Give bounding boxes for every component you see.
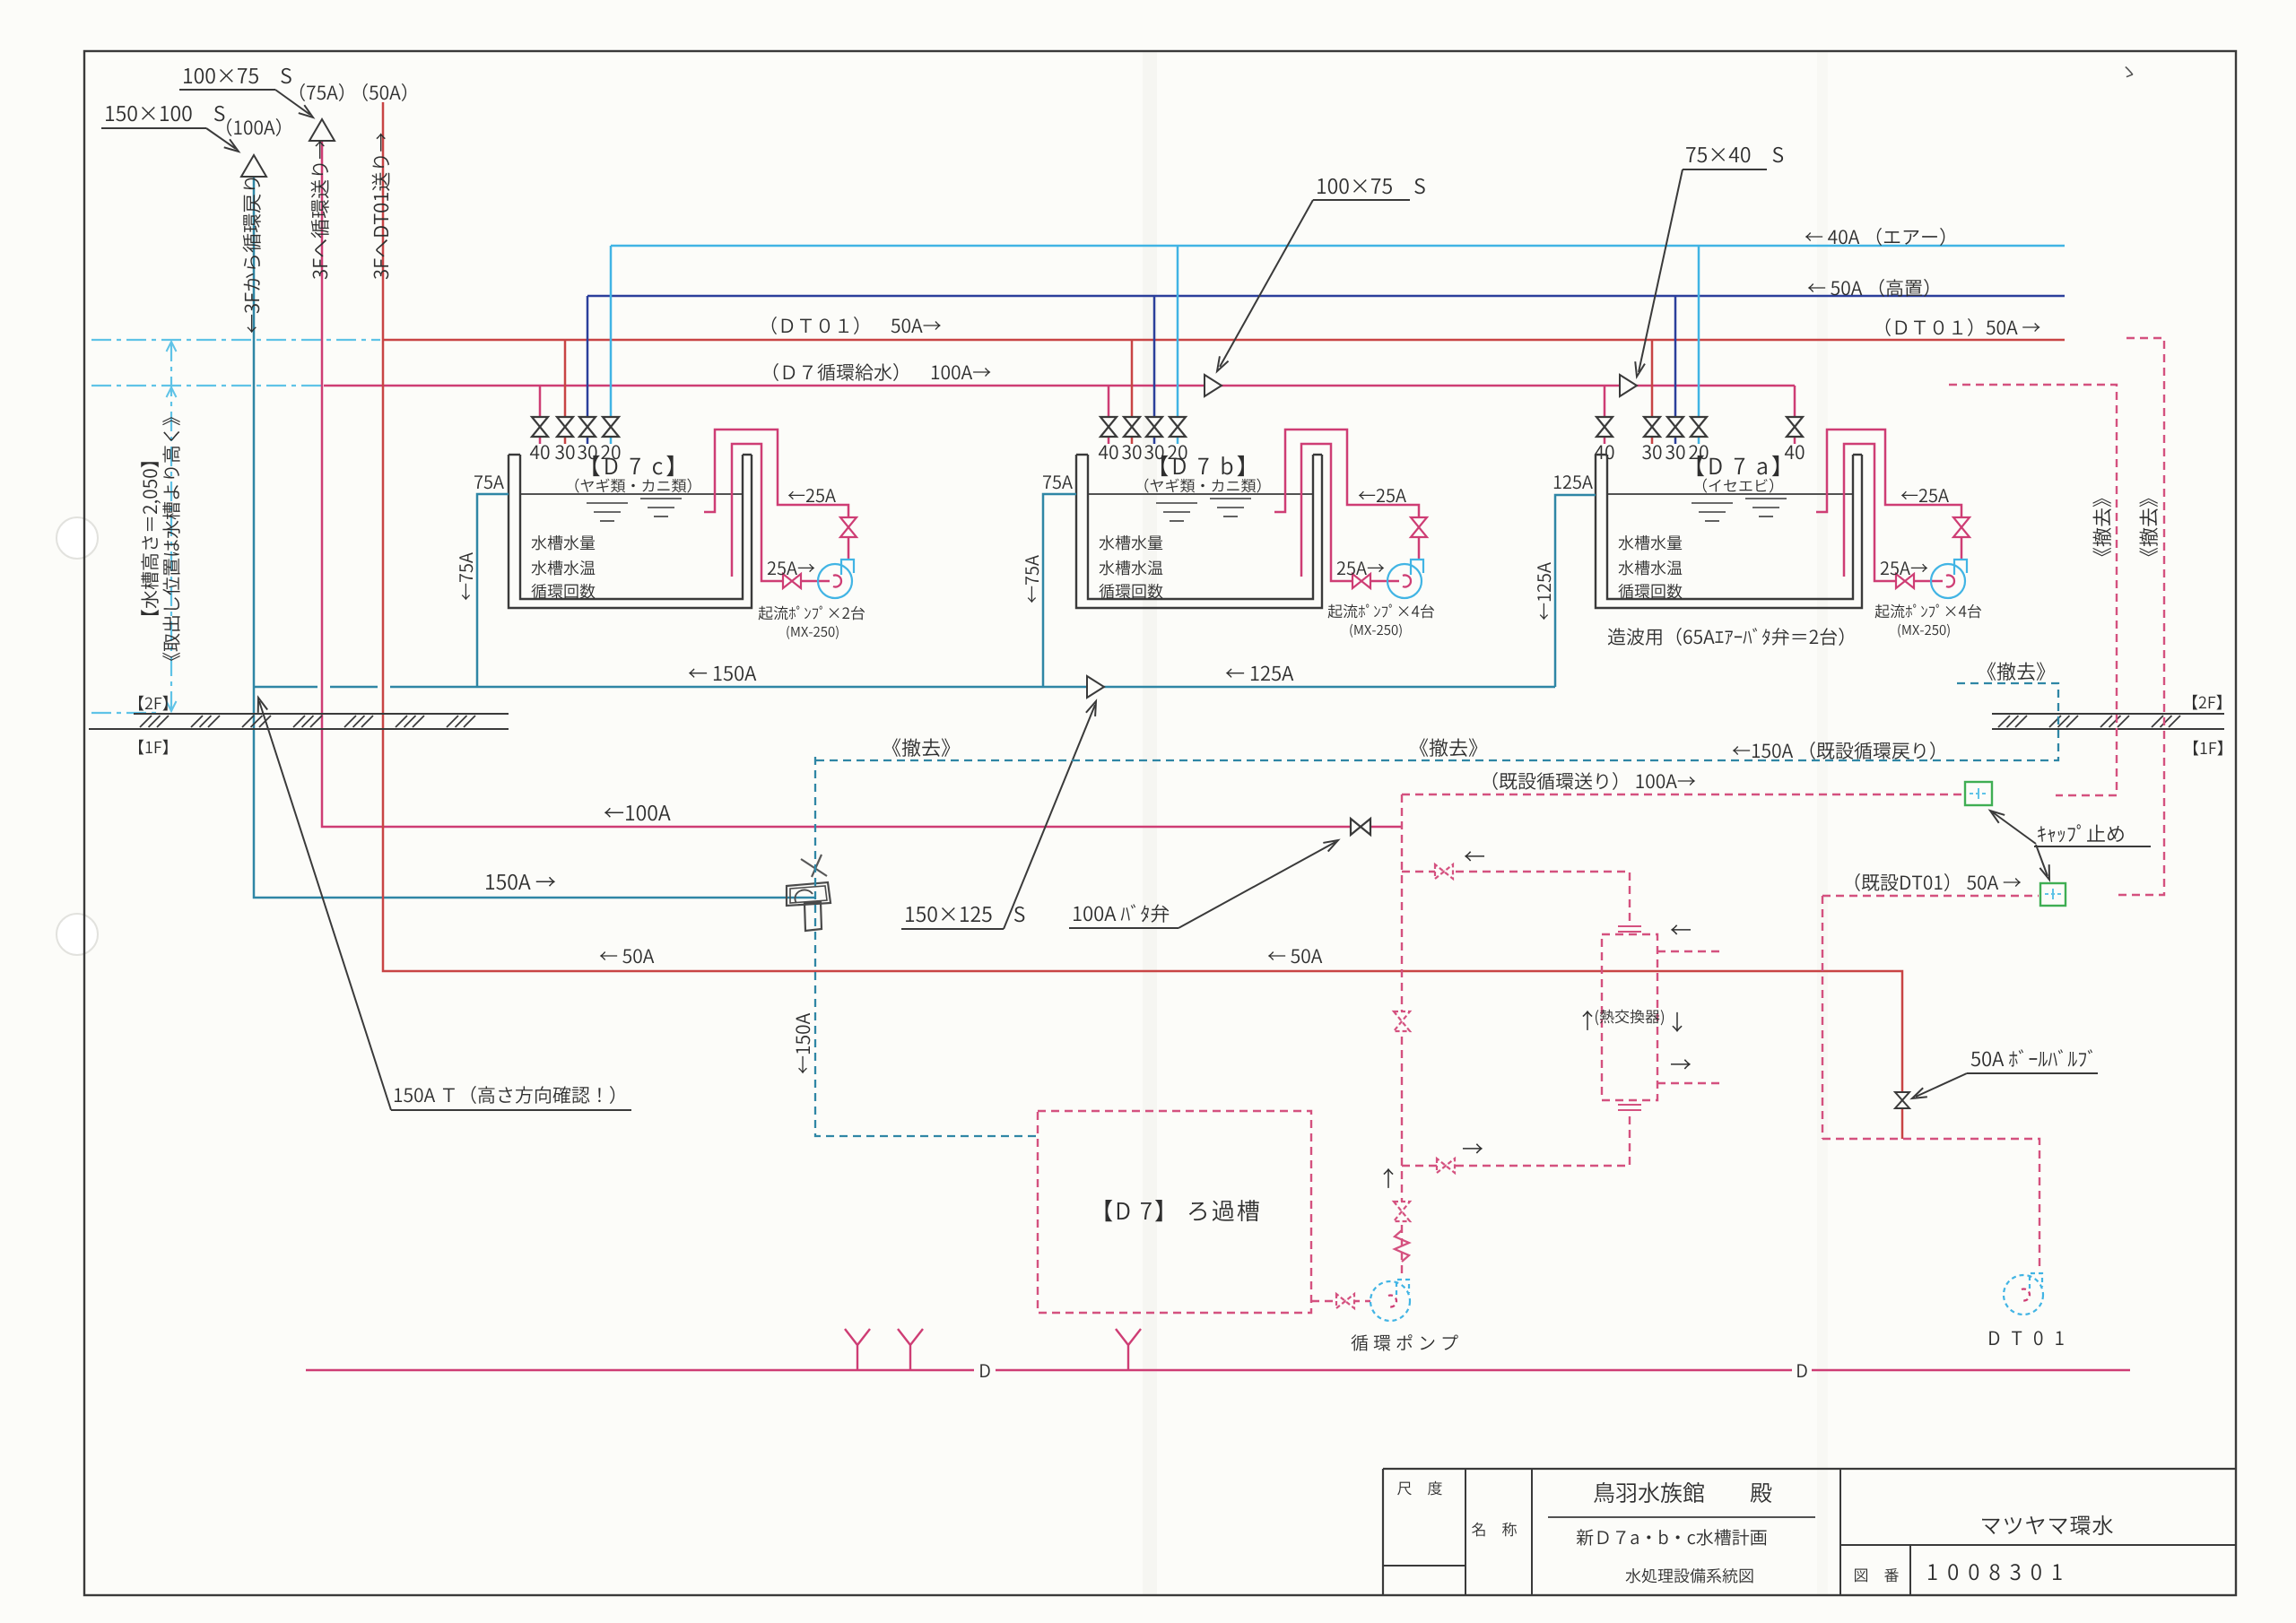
pipe: removal dashed loop 1 <box>1949 385 2117 795</box>
tank D7a text temperature <box>1619 560 1683 576</box>
reducer 150x100 triangle <box>241 155 266 177</box>
label: name <box>1472 1523 1517 1537</box>
filter tank D7 <box>1038 1111 1311 1313</box>
floor slab right <box>1992 728 2224 730</box>
D7a label 30 <box>1642 445 1661 459</box>
drain funnel 2 <box>898 1329 923 1370</box>
pump DT01 (dashed) <box>2004 1275 2043 1315</box>
label: 100A return <box>604 805 671 820</box>
pipe: 3F DT01 send riser (red) <box>383 102 1902 1139</box>
D7a 30A drop pipe <box>1651 340 1654 444</box>
valve HX bottom branch <box>1437 1159 1455 1173</box>
label: (75A) <box>300 83 344 101</box>
label: 50A lower left <box>600 949 655 963</box>
label: 3F return (rotated) <box>243 178 261 334</box>
pipe: removed return line (teal dashed) <box>816 683 2058 760</box>
D7b valve 20 <box>1170 417 1186 437</box>
tank D7c water line <box>520 493 743 495</box>
label: 125A (D7a) <box>1554 475 1593 489</box>
arrow up riser <box>1383 1168 1393 1188</box>
D7c label 30 <box>578 445 596 459</box>
valve 25A D7a suction <box>1896 574 1914 588</box>
label: 2F right <box>2193 695 2222 710</box>
label: outlet position note (rotated) <box>162 417 180 661</box>
pipe: 3F circulation return riser (teal) <box>254 177 814 898</box>
label: tank height 2050 (rotated) <box>141 462 161 615</box>
pencil sketch elbow <box>787 882 831 906</box>
HX bottom flange <box>1618 1104 1641 1106</box>
HX top flange <box>1618 925 1641 927</box>
pipe: existing riser (dashed) <box>1401 794 1403 1277</box>
heat exchanger body <box>1602 934 1657 1100</box>
pipe: D7c suction hairpin <box>732 444 830 581</box>
dimension line tank height <box>170 342 172 711</box>
label: drain D 2 <box>1797 1364 1806 1377</box>
valve 25A D7a discharge <box>1953 517 1970 537</box>
drain funnel 1 <box>845 1329 870 1370</box>
dash-dot level line 2F <box>91 712 157 714</box>
corner pen mark <box>2125 66 2133 77</box>
label: DT01 50A right <box>1886 318 2040 336</box>
tank D7c walls <box>509 455 752 608</box>
label: 3F send (rotated) <box>311 141 329 280</box>
pipe: 150A/125A seawater main <box>255 686 317 689</box>
pipe: existing circulation send (dashed) <box>1402 794 1963 795</box>
label: 100x75 S top-left <box>184 68 291 83</box>
label: heat exchanger <box>1596 1010 1664 1026</box>
label: 75A down (D7c, rotated) <box>459 552 473 600</box>
tank D7b water line <box>1088 493 1313 495</box>
pump D7c wave pump <box>818 564 852 598</box>
dash-dot level line lower <box>91 385 321 386</box>
label: existing DT01 <box>1856 873 2021 891</box>
pipe: 3F circulation send riser (pink) <box>322 141 1402 827</box>
reducer triangle 150x125 <box>1087 676 1104 698</box>
D7b 30A drop pipe <box>1131 340 1134 444</box>
label: 150A to filter <box>486 874 555 890</box>
valve existing riser upper <box>1394 1011 1410 1031</box>
dash-dot level line upper <box>91 339 380 341</box>
D7a 30A drop pipe <box>1674 296 1677 444</box>
pump D7a wave pump <box>1931 564 1965 598</box>
tank D7a water line <box>1607 493 1853 495</box>
reducer triangle on supply (100x75) <box>1205 375 1222 396</box>
label: 150A existing return <box>1733 742 1935 759</box>
label: drawing number <box>1928 1564 2061 1580</box>
label: wave-making note <box>1608 628 1844 646</box>
pipe: D7c discharge hairpin <box>704 430 848 559</box>
pipe: pump suction from filter (dashed) <box>1311 1300 1370 1302</box>
pipe: drain main <box>306 1369 974 1372</box>
tank D7b walls <box>1076 455 1322 608</box>
D7c label 20 <box>601 445 620 459</box>
D7b label 30 <box>1144 445 1163 459</box>
D7a valve 20 <box>1691 417 1707 437</box>
label: D7c <-25A <box>788 489 836 502</box>
label: 125A down (D7a, rotated) <box>1537 562 1551 620</box>
drain funnel 3 <box>1116 1329 1141 1370</box>
label: D7b 25A-> <box>1337 561 1385 575</box>
label: D7 circulation supply <box>774 363 991 381</box>
tank D7b text volume <box>1100 535 1163 551</box>
label: 150x100 S <box>106 106 224 121</box>
D7a 20A drop pipe <box>1698 246 1700 444</box>
pipe: existing DT01 branch (dashed) <box>1822 896 1823 1139</box>
pipe: HX top branch (dashed) <box>1402 872 1630 927</box>
label: drain D 1 <box>980 1364 989 1377</box>
label: 125A on main <box>1226 666 1294 681</box>
tank D7a walls <box>1596 455 1862 608</box>
label: D7a <-25A <box>1901 489 1949 502</box>
valve pump suction <box>1336 1294 1354 1308</box>
label: removal vertical 1 (rotated) <box>2092 499 2110 557</box>
tank D7b title <box>1161 456 1244 476</box>
arrow left HX stub top <box>1671 924 1691 934</box>
D7a label 40 <box>1595 445 1614 459</box>
D7c 40A drop pipe <box>539 386 542 444</box>
pipe: D7a discharge hairpin <box>1816 430 1961 559</box>
D7b label 30 <box>1122 445 1141 459</box>
label: 100x75 S center <box>1318 178 1425 194</box>
tank D7a title <box>1698 456 1779 476</box>
D7a label 40 right <box>1785 445 1805 459</box>
valve 100A butterfly <box>1351 819 1370 835</box>
pipe: HX bottom branch (dashed) <box>1402 1114 1630 1166</box>
label: D7c pump model <box>787 626 838 639</box>
pipe: 40A air header (cyan) <box>611 245 2065 247</box>
D7a valve 40 right <box>1787 417 1803 437</box>
label: 75A (D7c) <box>474 475 504 489</box>
label: D7a pump name <box>1875 604 1982 619</box>
label: D7c pump name <box>759 606 865 621</box>
pencil X mark <box>801 859 827 876</box>
label: client <box>1594 1482 1771 1503</box>
D7c valve 40 <box>532 417 548 437</box>
tank D7c subtitle <box>575 478 691 492</box>
D7c 30A drop pipe <box>587 296 589 444</box>
D7b 20A drop pipe <box>1177 246 1179 444</box>
label: DT01 50A left <box>772 317 941 334</box>
label: drawing title <box>1626 1568 1753 1584</box>
D7b valve 30 <box>1146 417 1162 437</box>
valve 50A ball <box>1895 1092 1909 1108</box>
valve existing riser mid <box>1394 1202 1410 1221</box>
label: 50A lower right <box>1268 949 1323 963</box>
arrow right HX bottom <box>1463 1143 1483 1153</box>
label: (50A) <box>363 83 406 101</box>
tank D7c text turnover <box>531 584 595 599</box>
label: (100A) <box>227 118 281 136</box>
reducer triangle on supply (75x40) <box>1620 375 1637 396</box>
D7b valve 30 <box>1124 417 1140 437</box>
label: 150A tee note <box>395 1086 614 1104</box>
label: 75A (D7b) <box>1043 475 1073 489</box>
label: company <box>1982 1515 2113 1535</box>
label: 1F right <box>2194 741 2222 756</box>
tank D7a text volume <box>1619 535 1683 551</box>
pipe: 50A elevated-tank header (navy) <box>587 295 2065 298</box>
arrow up HX label <box>1582 1011 1592 1030</box>
label: 1F left <box>139 740 168 755</box>
pipe: removal dashed loop 2 <box>2113 338 2164 895</box>
pipe: D7a suction hairpin <box>1844 444 1943 581</box>
HX stub right top <box>1657 950 1721 952</box>
D7a 40A drop pipe <box>1604 386 1606 444</box>
tank D7c water surface symbol <box>587 502 628 504</box>
D7c valve 20 <box>603 417 619 437</box>
arrow right HX stub bottom <box>1671 1059 1691 1069</box>
pipe: removed 150A line (teal dashed) <box>815 757 1038 1136</box>
D7a valve 30 <box>1644 417 1660 437</box>
cap fitting 1 <box>1965 782 1992 805</box>
pipe: D7b suction hairpin <box>1301 444 1399 581</box>
D7b 40A drop pipe <box>1108 386 1110 444</box>
label: D7c 25A-> <box>768 561 815 575</box>
D7c valve 30 <box>557 417 573 437</box>
tank D7a text turnover <box>1618 584 1682 599</box>
cap fitting 2 <box>2040 883 2066 906</box>
label: cap stop <box>2038 824 2124 842</box>
D7a valve 40 <box>1596 417 1613 437</box>
tank D7b text turnover <box>1099 584 1162 599</box>
label: removal vertical 2 (rotated) <box>2139 499 2157 557</box>
tank D7b subtitle <box>1144 478 1260 492</box>
label: 75x40 S <box>1686 147 1783 162</box>
pipe: DT01 50A header (red) <box>383 339 2065 342</box>
label: 100A butterfly valve <box>1074 904 1169 923</box>
D7c label 40 <box>530 445 550 459</box>
tank D7c title <box>593 456 673 476</box>
label: existing send <box>1493 772 1695 790</box>
punch hole top <box>57 517 98 559</box>
label: 150A down removed (rotated) <box>796 1013 810 1073</box>
tank D7b text temperature <box>1100 560 1163 576</box>
pump D7b wave pump <box>1387 564 1422 598</box>
flex joint <box>1395 1230 1409 1262</box>
label: D7a pump model <box>1898 624 1949 638</box>
label: D7b pump name <box>1328 604 1435 619</box>
label: 40A air <box>1805 228 1945 246</box>
pump circulation (dashed) <box>1370 1281 1410 1321</box>
label: drawing number head <box>1855 1568 1899 1582</box>
valve HX top branch <box>1435 864 1453 879</box>
D7b valve 40 <box>1100 417 1117 437</box>
tank D7c text volume <box>532 535 596 551</box>
label: circulation pump <box>1351 1334 1457 1351</box>
label: D7a 25A-> <box>1881 561 1928 575</box>
label: DT01 <box>1989 1331 2063 1345</box>
label: filter tank D7 <box>1106 1200 1259 1221</box>
label: D7b pump model <box>1350 624 1401 638</box>
D7a label 30 <box>1665 445 1684 459</box>
label: removal 1 <box>892 738 951 756</box>
label: 2F left <box>139 696 168 711</box>
D7b label 20 <box>1168 445 1187 459</box>
pipe: D7b 75A supply <box>1043 494 1076 687</box>
D7b label 40 <box>1099 445 1118 459</box>
tank D7b water surface symbol <box>1156 502 1197 504</box>
D7c 20A drop pipe <box>610 246 613 444</box>
HX stub right bottom <box>1657 1082 1721 1084</box>
pipe: D7c 75A supply <box>477 494 509 687</box>
pipe: D7a 125A supply <box>1555 495 1596 687</box>
pipe: D7 circulation supply 100A header (pink) <box>324 385 1795 387</box>
D7c 30A drop pipe <box>564 340 567 444</box>
label: 3F DT01 send (rotated) <box>372 133 390 279</box>
valve 25A D7b suction <box>1352 574 1370 588</box>
valve 25A D7b discharge <box>1411 517 1427 537</box>
label: removal 2 <box>1420 738 1478 756</box>
D7a label 20 <box>1689 445 1708 459</box>
D7a 40A drop pipe right <box>1794 386 1796 444</box>
label: 150A on main <box>689 666 757 681</box>
label: D7b <-25A <box>1359 489 1406 502</box>
tank D7c text temperature <box>532 560 596 576</box>
punch hole bottom <box>57 914 98 955</box>
valve 25A D7c discharge <box>840 517 857 537</box>
title underline <box>1548 1516 1815 1518</box>
arrow left HX top <box>1465 851 1484 861</box>
floor slab left <box>89 728 509 730</box>
label: 50A ball valve <box>1971 1049 2092 1067</box>
D7a valve 30 <box>1667 417 1683 437</box>
scan fold shading <box>1143 51 1157 1595</box>
reducer 100x75 triangle <box>309 119 335 141</box>
label: 75A down (D7b, rotated) <box>1025 555 1039 603</box>
tank D7a water surface symbol <box>1692 502 1733 504</box>
title block frame <box>1383 1468 2236 1470</box>
label: scale <box>1397 1481 1442 1496</box>
arrow down HX label <box>1672 1012 1682 1032</box>
D7c valve 30 <box>579 417 596 437</box>
label: project <box>1577 1529 1767 1545</box>
D7b 30A drop pipe <box>1153 296 1156 444</box>
valve 25A D7c suction <box>783 574 801 588</box>
D7c label 30 <box>555 445 574 459</box>
label: 50A elevated <box>1808 279 1929 297</box>
label: removal 3 <box>1987 662 2046 680</box>
tank D7a subtitle <box>1703 478 1773 492</box>
pipe: D7b discharge hairpin <box>1274 430 1419 559</box>
label: 150x125 S <box>906 907 1024 922</box>
